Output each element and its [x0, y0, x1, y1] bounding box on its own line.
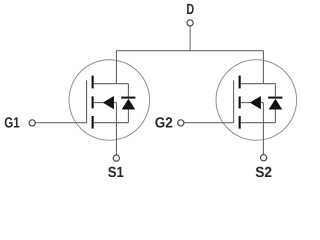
wire: Q1 diode anode drop	[127, 110, 129, 123]
transistor Q2 channel segment (body)	[239, 96, 241, 108]
wire: Q1 source stub	[94, 122, 129, 124]
transistor Q1 body arrow	[103, 96, 114, 109]
terminal G2 pin circle	[178, 120, 184, 126]
transistor Q1 channel segment (drain)	[92, 76, 94, 89]
wire: Q2 drain lead down from bus	[262, 51, 264, 84]
transistor Q2 channel segment (drain)	[239, 76, 241, 89]
wire: Q1 body stub	[94, 102, 104, 104]
wire: Q1 arrow to source junction	[114, 102, 117, 104]
transistor Q2 gate electrode	[233, 80, 235, 122]
wire: common drain top bus	[116, 50, 263, 52]
transistor Q2 channel segment (source)	[239, 116, 241, 129]
wire: Q2 body stub	[241, 102, 251, 104]
wire: Q2 source stub	[241, 122, 276, 124]
wire: drain lead from D terminal down to bus	[189, 26, 191, 51]
wire: Q2 diode cathode riser	[274, 84, 276, 97]
diode D1 triangle	[122, 99, 136, 110]
transistor Q2 body arrow	[250, 96, 261, 109]
wire: Q1 drain lead down from bus	[115, 51, 117, 84]
diode D2 cathode bar	[268, 97, 282, 99]
transistor Q1 channel segment (source)	[92, 116, 94, 129]
wire: Q2 source lead down to S2	[262, 103, 264, 155]
terminal D pin circle	[187, 20, 193, 26]
transistor Q1 channel segment (body)	[92, 96, 94, 108]
transistor Q2 body circle	[216, 60, 297, 141]
wire: Q2 arrow to source junction	[261, 102, 264, 104]
svg-text:G1: G1	[4, 116, 19, 132]
svg-text:D: D	[186, 2, 194, 18]
svg-text:G2: G2	[155, 116, 173, 132]
wire: Q1 drain stub	[94, 83, 129, 85]
transistor Q1 body circle	[69, 60, 150, 141]
diode D2 triangle	[269, 99, 283, 110]
terminal S1 pin circle	[113, 155, 119, 161]
wire: G1 lead	[35, 122, 86, 124]
svg-text:S2: S2	[255, 165, 272, 181]
wire: Q1 source lead down to S1	[115, 103, 117, 155]
wire: Q1 diode cathode riser	[127, 84, 129, 97]
svg-text:S1: S1	[108, 165, 124, 181]
wire: Q2 drain stub	[241, 83, 276, 85]
terminal S2 pin circle	[261, 155, 267, 161]
diode D1 cathode bar	[121, 97, 135, 99]
wire: Q2 diode anode drop	[274, 110, 276, 123]
terminal G1 pin circle	[29, 120, 35, 126]
wire: G2 lead	[184, 122, 234, 124]
transistor Q1 gate electrode	[86, 80, 88, 122]
